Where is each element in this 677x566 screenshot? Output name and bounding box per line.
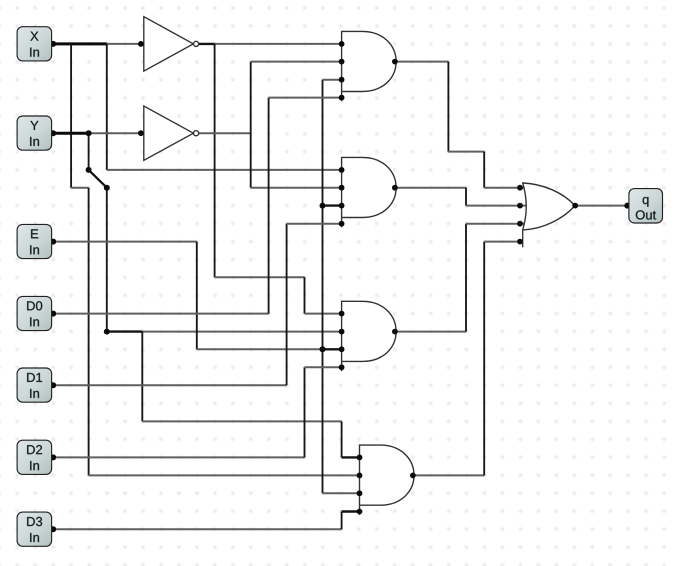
pin OR1 input 4 (517, 239, 523, 245)
junction E at col322 row349 (320, 346, 326, 352)
wire D2 vertical col304 (304, 367, 306, 457)
input port D3 (17, 512, 52, 546)
pin NOT2 input (138, 130, 144, 136)
wire Y lead (thick) from port Y to junction (53, 132, 88, 135)
pin AND4 input 3 (357, 490, 363, 496)
pin AND3 input 2 (339, 329, 345, 335)
pin AND4 input 4 (357, 509, 363, 515)
wire notX to AND3 pin1 row314 (305, 313, 342, 315)
wire Y row332 black stub (107, 330, 143, 332)
pin port q input (624, 203, 630, 209)
wire D3 lead row529 (53, 528, 341, 530)
wire AND1 out vertical col448 (447, 62, 449, 152)
pin AND1 input 3 (339, 77, 345, 83)
wire Y to AND3 pin2 row332 (142, 331, 341, 333)
wire Y vertical col342 to AND4 (341, 421, 343, 457)
output port q (629, 189, 663, 223)
wire X to NOT1 input (107, 43, 141, 45)
wire X branch vertical col107 (106, 44, 108, 170)
wire NOT2 out (199, 132, 251, 134)
wire X jog row188 (71, 187, 89, 189)
wire OR output to port q (575, 205, 627, 207)
wire AND2 out to OR pin2 row206 (466, 205, 520, 207)
pin AND1 input 4 (339, 95, 345, 101)
pin AND4 input 2 (357, 473, 363, 479)
pin OR1 input 1 (517, 185, 523, 191)
wire Y row421 (142, 420, 341, 422)
wire Y vertical col142 (141, 332, 143, 422)
pin NOT1 input (138, 41, 144, 47)
wire AND3 out vertical col466 up (465, 224, 467, 332)
wire AND1 out to OR pin1 row188 (484, 187, 520, 189)
and-gate AND2 (342, 157, 397, 227)
wire notY vertical col251 (250, 62, 252, 188)
wire E vertical col197 (196, 242, 198, 350)
pin AND2 input 4 (339, 221, 345, 227)
wire AND3 out to OR pin3 row224 (466, 223, 520, 225)
wire AND1 out vertical col484 (483, 152, 485, 188)
pin OR1 input 3 (517, 221, 523, 227)
input port X (17, 27, 52, 61)
wire Y vertical col107 mid (106, 188, 108, 332)
wire OR pin stubs (520, 187, 524, 189)
input port Y (17, 116, 52, 150)
wire X to AND2 pin1 row170 (107, 169, 342, 171)
pin OR1 input 2 (517, 203, 523, 209)
pin AND3 input 3 (339, 346, 345, 352)
junction E at col322 row206 (320, 203, 326, 209)
wire E lead row242 (53, 241, 197, 243)
pin port E output (50, 239, 56, 245)
wire D0 to AND1 pin4 row98 (269, 97, 342, 99)
junction Y at col89 row133 (86, 130, 92, 136)
pin AND2 input 1 (339, 167, 345, 173)
wire E row349 (197, 348, 323, 350)
wire E to AND1 pin3 row80 (323, 79, 342, 81)
pin port D0 output (50, 311, 56, 317)
wire D0 vertical col269 (268, 98, 270, 314)
pin AND2 output (392, 185, 398, 191)
wire NOT1 out stub (199, 43, 215, 45)
pin port X output (50, 41, 56, 47)
pin AND4 input 1 (357, 455, 363, 461)
inverter NOT1 (X) (144, 17, 199, 71)
wire D3 vertical col342 (341, 512, 343, 530)
wire D2 to AND3 pin4 row367 (305, 366, 342, 368)
wire Y black stub to AND4 pin1 (342, 456, 360, 458)
pin AND1 output (392, 59, 398, 65)
wire D3 black stub to AND4 pin4 (342, 510, 360, 512)
wire D2 lead row457 (53, 456, 304, 458)
wire notY to AND2 pin2 row188 (251, 187, 342, 189)
pin AND1 input 2 (339, 59, 345, 65)
inverter NOT2 (Y) (144, 106, 199, 160)
wire D1 lead row385 (53, 384, 286, 386)
wire AND4 out vertical col484 up (483, 242, 485, 476)
input port D2 (17, 440, 52, 474)
wire D1 vertical col287 (286, 224, 288, 386)
wire Y branch vertical col89 upper (88, 133, 90, 170)
wire E black stub to AND3 pin3 (323, 348, 342, 350)
wire AND1 out row152 (448, 151, 484, 153)
wire E vertical col322 (322, 80, 324, 494)
wire X long vertical col89 (88, 188, 90, 476)
pin AND2 input 3 (339, 203, 345, 209)
junction Y at col107 row332 (104, 329, 110, 335)
pin AND1 input 1 (339, 41, 345, 47)
wire AND2 out vertical col466 (465, 188, 467, 206)
pin port D3 output (50, 526, 56, 532)
wire notX to AND1 pin1 (215, 43, 342, 45)
pin AND4 output (410, 473, 416, 479)
junction Y at col89 row170 (diagonal start) (86, 167, 92, 173)
wire Y diagonal crossover (89, 170, 107, 188)
or-gate OR1 (523, 183, 575, 247)
wire E black stub to AND2 pin3 row206 (323, 204, 342, 206)
wire AND2 output row188 (395, 187, 466, 189)
wire D1 to AND2 pin4 row224 (287, 223, 342, 225)
and-gate AND3 (342, 301, 397, 371)
wire E to AND4 pin3 row493 (323, 492, 360, 494)
pin AND3 input 4 (339, 364, 345, 370)
wire notX vertical col215 (214, 44, 216, 277)
pin OR1 output (572, 203, 578, 209)
input port D0 (17, 296, 52, 330)
input port D1 (17, 368, 52, 402)
wire AND4 output row475 (413, 474, 484, 476)
and-gate AND1 (342, 31, 397, 101)
wire AND3 output row332 (395, 331, 466, 333)
wire AND1 output row62 (395, 61, 449, 63)
GATES (144, 17, 575, 515)
wire AND4 out to OR pin4 row242 (484, 241, 520, 243)
wire Y to NOT2 input (89, 132, 141, 134)
junction Y at col107 row188 (diagonal end) (104, 185, 110, 191)
pin port Y output (50, 130, 56, 136)
pin port D2 output (50, 454, 56, 460)
input port E (17, 224, 52, 258)
pin port D1 output (50, 382, 56, 388)
wire D0 lead row314 (53, 313, 268, 315)
wire notY to AND1 pin2 row62 (251, 61, 342, 63)
pin AND3 input 1 (339, 311, 345, 317)
pin AND2 input 2 (339, 185, 345, 191)
wire X branch vertical col71 (70, 44, 72, 188)
wire notX row277 (215, 276, 305, 278)
wire X to AND4 pin2 row475 (89, 474, 360, 476)
pin AND3 output (392, 329, 398, 335)
and-gate AND4 (360, 445, 415, 515)
wire notX vertical col304 (304, 277, 306, 313)
wire X lead (thick) from port X to node (53, 42, 107, 45)
